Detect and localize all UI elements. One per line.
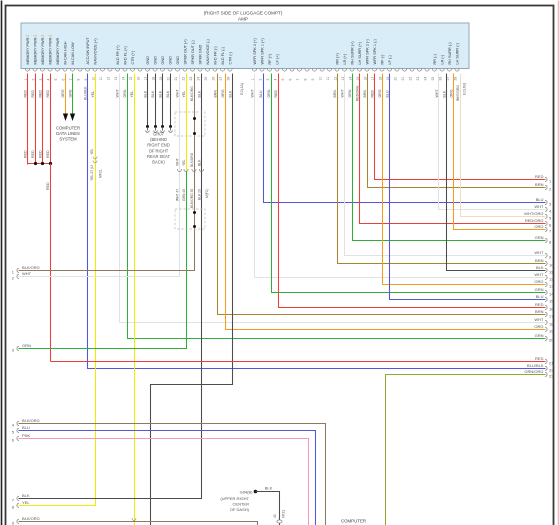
svg-text:18: 18 bbox=[151, 77, 155, 81]
svg-text:RED: RED bbox=[535, 174, 544, 179]
svg-text:MF21: MF21 bbox=[282, 510, 286, 518]
svg-text:ORG: ORG bbox=[534, 279, 543, 284]
svg-text:RED: RED bbox=[46, 182, 50, 190]
svg-text:YEL: YEL bbox=[182, 91, 186, 98]
svg-text:BLU/BLK: BLU/BLK bbox=[84, 86, 88, 100]
svg-text:BLK 29: BLK 29 bbox=[198, 189, 202, 200]
svg-text:16: 16 bbox=[136, 77, 140, 81]
svg-text:23: 23 bbox=[189, 77, 193, 81]
svg-text:LF (-): LF (-) bbox=[388, 54, 392, 64]
svg-text:GND: GND bbox=[176, 56, 180, 65]
svg-text:WHT: WHT bbox=[534, 250, 544, 255]
svg-text:*2: *2 bbox=[41, 35, 44, 39]
svg-text:BLK/ORG: BLK/ORG bbox=[22, 516, 40, 521]
svg-text:11: 11 bbox=[326, 77, 330, 81]
svg-text:5: 5 bbox=[54, 79, 58, 81]
svg-text:RED: RED bbox=[31, 150, 35, 158]
svg-text:GND: GND bbox=[168, 56, 172, 65]
svg-text:BLK/ORG: BLK/ORG bbox=[22, 418, 40, 423]
svg-text:GND: GND bbox=[161, 56, 165, 65]
svg-text:LR (+): LR (+) bbox=[343, 53, 347, 64]
svg-text:WHT: WHT bbox=[534, 272, 544, 277]
svg-text:YEL: YEL bbox=[91, 91, 95, 98]
svg-text:MEMORY PWR: MEMORY PWR bbox=[33, 37, 37, 64]
svg-text:18: 18 bbox=[549, 322, 554, 327]
svg-text:MF21: MF21 bbox=[99, 169, 103, 178]
svg-text:15: 15 bbox=[129, 77, 133, 81]
svg-text:24: 24 bbox=[423, 77, 427, 81]
svg-text:NAV/VOICE (-): NAV/VOICE (-) bbox=[206, 39, 210, 65]
svg-text:RH SURR (+): RH SURR (+) bbox=[350, 41, 354, 65]
svg-text:*2: *2 bbox=[33, 35, 36, 39]
svg-text:RED: RED bbox=[24, 150, 28, 158]
svg-text:BLK: BLK bbox=[166, 90, 170, 97]
svg-text:WHT: WHT bbox=[341, 89, 345, 98]
svg-text:BLK: BLK bbox=[442, 90, 446, 97]
svg-text:PNK: PNK bbox=[22, 433, 31, 438]
svg-text:M-CAN HIGH: M-CAN HIGH bbox=[63, 41, 67, 64]
svg-text:5: 5 bbox=[281, 79, 285, 81]
svg-text:RED: RED bbox=[46, 90, 50, 98]
svg-text:GRN: GRN bbox=[535, 333, 544, 338]
svg-text:16: 16 bbox=[549, 307, 554, 312]
svg-text:13: 13 bbox=[549, 284, 554, 289]
svg-text:WFR SPK 2 (+): WFR SPK 2 (+) bbox=[253, 37, 257, 64]
svg-text:4: 4 bbox=[273, 79, 277, 81]
svg-text:GRN 40: GRN 40 bbox=[182, 189, 186, 201]
svg-text:(UPPER RIGHT: (UPPER RIGHT bbox=[220, 496, 249, 501]
svg-text:RED/ORG: RED/ORG bbox=[525, 218, 544, 223]
svg-text:14: 14 bbox=[121, 77, 125, 81]
svg-text:BLK/ORG 30: BLK/ORG 30 bbox=[190, 189, 194, 208]
svg-text:22: 22 bbox=[181, 77, 185, 81]
svg-text:E2(JB): E2(JB) bbox=[462, 82, 467, 95]
svg-text:23: 23 bbox=[549, 374, 554, 379]
svg-text:10: 10 bbox=[549, 263, 554, 268]
svg-text:BRN: BRN bbox=[363, 90, 367, 98]
svg-text:21: 21 bbox=[401, 77, 405, 81]
svg-text:LH SURR (+): LH SURR (+) bbox=[358, 41, 362, 64]
svg-text:MEMORY PWR: MEMORY PWR bbox=[41, 37, 45, 64]
svg-text:BLK: BLK bbox=[536, 265, 544, 270]
svg-text:WFR SPK 1 (+): WFR SPK 1 (+) bbox=[260, 37, 264, 64]
svg-text:17: 17 bbox=[549, 314, 554, 319]
svg-text:RF (-): RF (-) bbox=[380, 54, 384, 65]
svg-text:RED: RED bbox=[46, 150, 50, 158]
svg-text:WHT: WHT bbox=[251, 89, 255, 98]
svg-text:LH SURR (-): LH SURR (-) bbox=[455, 42, 459, 64]
svg-text:12: 12 bbox=[549, 277, 554, 282]
svg-text:ORG: ORG bbox=[61, 89, 65, 97]
svg-text:WHT/ORG: WHT/ORG bbox=[524, 211, 543, 216]
svg-text:BLK/ORG: BLK/ORG bbox=[22, 265, 40, 270]
svg-text:40: 40 bbox=[273, 514, 277, 518]
svg-text:*2: *2 bbox=[48, 35, 51, 39]
svg-text:BLU: BLU bbox=[386, 90, 390, 97]
svg-text:ORG: ORG bbox=[221, 89, 225, 97]
svg-text:BLU/BLK: BLU/BLK bbox=[527, 363, 544, 368]
svg-text:19: 19 bbox=[549, 329, 554, 334]
svg-text:16: 16 bbox=[363, 77, 367, 81]
svg-text:18: 18 bbox=[378, 77, 382, 81]
svg-text:10: 10 bbox=[91, 77, 95, 81]
svg-text:RED: RED bbox=[39, 90, 43, 98]
svg-text:GND: GND bbox=[146, 56, 150, 65]
svg-text:ORG: ORG bbox=[534, 324, 543, 329]
svg-text:M-D FL (-): M-D FL (-) bbox=[221, 46, 225, 64]
svg-text:WHT: WHT bbox=[435, 89, 439, 98]
svg-text:WHT 47: WHT 47 bbox=[176, 189, 180, 201]
svg-text:*2: *2 bbox=[26, 35, 29, 39]
svg-text:25: 25 bbox=[431, 77, 435, 81]
svg-text:RH SURR (-): RH SURR (-) bbox=[448, 42, 452, 65]
svg-text:26: 26 bbox=[211, 77, 215, 81]
svg-text:MEMORY PWR: MEMORY PWR bbox=[56, 37, 60, 64]
svg-text:BRN: BRN bbox=[535, 258, 544, 263]
svg-text:GRN: GRN bbox=[22, 343, 31, 348]
svg-text:WHT: WHT bbox=[534, 317, 544, 322]
svg-text:GRN: GRN bbox=[535, 235, 544, 240]
svg-text:MEMORY PWR: MEMORY PWR bbox=[26, 37, 30, 64]
svg-text:(BEHIND: (BEHIND bbox=[150, 137, 167, 142]
svg-text:M(F2): M(F2) bbox=[205, 189, 209, 198]
svg-text:LR (-): LR (-) bbox=[440, 54, 444, 64]
svg-text:NAV/VOICE (+): NAV/VOICE (+) bbox=[93, 38, 97, 65]
svg-text:GND: GND bbox=[153, 56, 157, 65]
svg-text:AMP: AMP bbox=[238, 17, 248, 22]
svg-text:RED: RED bbox=[274, 90, 278, 98]
svg-text:25: 25 bbox=[204, 77, 208, 81]
svg-text:ORG: ORG bbox=[449, 89, 453, 97]
svg-text:GRN: GRN bbox=[69, 89, 73, 97]
svg-text:GRN: GRN bbox=[348, 89, 352, 97]
svg-text:BLK: BLK bbox=[144, 90, 148, 97]
svg-text:BLU: BLU bbox=[536, 294, 544, 299]
svg-text:DATA LINES: DATA LINES bbox=[56, 131, 80, 136]
svg-text:BRN: BRN bbox=[333, 90, 337, 98]
svg-text:M-D FR (+): M-D FR (+) bbox=[116, 45, 120, 65]
svg-text:OF RIGHT: OF RIGHT bbox=[149, 148, 169, 153]
svg-text:21: 21 bbox=[174, 77, 178, 81]
svg-text:13: 13 bbox=[114, 77, 118, 81]
svg-text:(RIGHT SIDE OF LUGGAGE COMPT): (RIGHT SIDE OF LUGGAGE COMPT) bbox=[204, 11, 283, 16]
svg-text:COMPUTER: COMPUTER bbox=[56, 126, 80, 131]
svg-text:BLK: BLK bbox=[198, 159, 202, 166]
svg-text:WHT: WHT bbox=[116, 89, 120, 98]
svg-text:SPKR OUT (+): SPKR OUT (+) bbox=[183, 39, 187, 65]
svg-text:BLK: BLK bbox=[198, 90, 202, 97]
svg-text:21: 21 bbox=[549, 361, 554, 366]
svg-text:8: 8 bbox=[303, 79, 307, 81]
svg-text:6: 6 bbox=[61, 79, 65, 81]
svg-text:14: 14 bbox=[549, 292, 554, 297]
svg-text:9: 9 bbox=[311, 79, 315, 81]
svg-text:20: 20 bbox=[549, 338, 554, 343]
svg-text:COMPUTER: COMPUTER bbox=[341, 519, 366, 524]
svg-text:M-D FL (+): M-D FL (+) bbox=[123, 45, 127, 64]
svg-text:8: 8 bbox=[76, 79, 80, 81]
svg-text:2: 2 bbox=[258, 79, 262, 81]
svg-text:BLK: BLK bbox=[22, 493, 30, 498]
svg-text:YEL: YEL bbox=[22, 500, 30, 505]
svg-text:RED: RED bbox=[535, 356, 544, 361]
svg-text:BLK/ORG: BLK/ORG bbox=[190, 152, 194, 167]
svg-text:RF (+): RF (+) bbox=[268, 53, 272, 65]
svg-text:GRN: GRN bbox=[123, 89, 127, 97]
svg-text:BLU: BLU bbox=[259, 90, 263, 97]
svg-text:BLU: BLU bbox=[22, 425, 30, 430]
svg-text:10: 10 bbox=[318, 77, 322, 81]
svg-text:RED: RED bbox=[39, 150, 43, 158]
svg-text:11: 11 bbox=[99, 77, 103, 81]
svg-text:RED: RED bbox=[371, 90, 375, 98]
svg-text:ORG: ORG bbox=[378, 89, 382, 97]
svg-text:WFR SPK 2 (-): WFR SPK 2 (-) bbox=[365, 38, 369, 64]
svg-text:WHT: WHT bbox=[176, 89, 180, 98]
svg-text:MEMORY PWR: MEMORY PWR bbox=[48, 37, 52, 64]
svg-text:REAR SEAT: REAR SEAT bbox=[147, 154, 170, 159]
svg-text:6: 6 bbox=[288, 79, 292, 81]
svg-text:RR (+): RR (+) bbox=[335, 52, 339, 64]
svg-text:12: 12 bbox=[106, 77, 110, 81]
svg-text:E2(JA): E2(JA) bbox=[239, 82, 244, 95]
svg-text:YEL: YEL bbox=[130, 91, 134, 98]
svg-text:BLK: BLK bbox=[229, 90, 233, 97]
svg-text:RED/ORG: RED/ORG bbox=[356, 85, 360, 101]
svg-text:SPKR GND: SPKR GND bbox=[198, 44, 202, 64]
svg-text:SPKR OUT (-): SPKR OUT (-) bbox=[191, 40, 195, 65]
svg-text:3: 3 bbox=[266, 79, 270, 81]
svg-text:GRN/ORG: GRN/ORG bbox=[524, 369, 543, 374]
svg-text:YEL: YEL bbox=[90, 148, 94, 155]
svg-text:BLK: BLK bbox=[151, 90, 155, 97]
svg-text:24: 24 bbox=[196, 77, 200, 81]
svg-text:RIGHT END: RIGHT END bbox=[147, 143, 169, 148]
svg-text:RED: RED bbox=[535, 302, 544, 307]
svg-text:7: 7 bbox=[296, 79, 300, 81]
svg-text:GRN: GRN bbox=[267, 89, 271, 97]
svg-text:BACK): BACK) bbox=[152, 160, 165, 165]
svg-text:RED: RED bbox=[24, 90, 28, 98]
svg-text:CTR (-): CTR (-) bbox=[228, 51, 232, 64]
svg-text:BLK: BLK bbox=[265, 486, 273, 491]
svg-text:15: 15 bbox=[549, 299, 554, 304]
svg-text:LF (+): LF (+) bbox=[275, 54, 279, 65]
svg-text:GRN: GRN bbox=[535, 287, 544, 292]
svg-text:OF DASH): OF DASH) bbox=[230, 507, 250, 512]
svg-text:20: 20 bbox=[393, 77, 397, 81]
svg-text:28: 28 bbox=[226, 77, 230, 81]
svg-text:22: 22 bbox=[408, 77, 412, 81]
svg-text:YEL 27 (IJ: YEL 27 (IJ bbox=[90, 165, 94, 181]
svg-text:ORG: ORG bbox=[534, 224, 543, 229]
svg-text:WHT: WHT bbox=[22, 271, 32, 276]
svg-text:ACC/ON INPUT: ACC/ON INPUT bbox=[86, 37, 90, 65]
svg-text:WHT: WHT bbox=[534, 204, 544, 209]
svg-text:22: 22 bbox=[549, 368, 554, 373]
svg-text:G04(B): G04(B) bbox=[240, 490, 254, 495]
svg-text:BRN: BRN bbox=[535, 182, 544, 187]
svg-text:BLK: BLK bbox=[159, 90, 163, 97]
svg-text:20: 20 bbox=[166, 77, 170, 81]
svg-text:BLK/ORG: BLK/ORG bbox=[190, 86, 194, 101]
svg-text:23: 23 bbox=[416, 77, 420, 81]
svg-text:RR (-): RR (-) bbox=[433, 53, 437, 64]
svg-text:SYSTEM: SYSTEM bbox=[59, 137, 77, 142]
svg-text:M-CAN LOW: M-CAN LOW bbox=[71, 42, 75, 65]
svg-text:4: 4 bbox=[46, 79, 50, 81]
svg-text:YEL: YEL bbox=[182, 159, 186, 166]
svg-text:14: 14 bbox=[348, 77, 352, 81]
svg-text:BRN: BRN bbox=[214, 90, 218, 98]
svg-text:BRN: BRN bbox=[535, 309, 544, 314]
svg-text:CTR (+): CTR (+) bbox=[131, 50, 135, 64]
svg-text:WFR SPK 1 (-): WFR SPK 1 (-) bbox=[373, 38, 377, 64]
svg-text:12: 12 bbox=[333, 77, 337, 81]
svg-text:2: 2 bbox=[31, 79, 35, 81]
svg-text:WHT: WHT bbox=[176, 158, 180, 166]
svg-text:27: 27 bbox=[219, 77, 223, 81]
svg-text:GR07: GR07 bbox=[153, 132, 164, 137]
svg-text:M-D FR (-): M-D FR (-) bbox=[213, 46, 217, 65]
svg-text:WHT/ORG: WHT/ORG bbox=[456, 85, 460, 101]
svg-text:CENTER: CENTER bbox=[233, 502, 250, 507]
svg-text:RED: RED bbox=[31, 90, 35, 98]
svg-text:BLU: BLU bbox=[536, 197, 544, 202]
